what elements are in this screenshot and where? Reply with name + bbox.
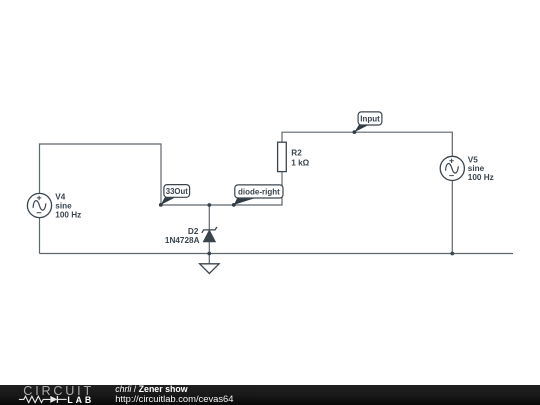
wire: 33Out node to R2 bottom (161, 172, 282, 205)
footer logo resistor zigzag (19, 396, 50, 402)
wire: rail to ground stub (208, 254, 210, 264)
junction dot at D2/bottom rail (207, 252, 211, 256)
wire: junction to D2 cathode (208, 205, 210, 230)
svg-text:diode-right: diode-right (238, 188, 280, 197)
junction dot at V5/bottom rail (450, 252, 454, 256)
junction dot at D2/top wire (207, 203, 211, 207)
footer bar (0, 385, 540, 405)
node diode-right (232, 185, 283, 207)
wire: D2 anode to rail (208, 242, 210, 254)
svg-text:Input: Input (360, 115, 380, 124)
wire: V4 top loop to 33Out node (40, 144, 162, 205)
svg-text:V4: V4 (55, 193, 65, 202)
voltage source V4 (27, 193, 51, 217)
node 33Out (159, 185, 190, 207)
footer logo diode (50, 396, 57, 403)
svg-text:1N4728A: 1N4728A (165, 236, 200, 245)
svg-text:33Out: 33Out (166, 187, 188, 196)
ground (200, 264, 220, 274)
svg-text:http://circuitlab.com/cevas64: http://circuitlab.com/cevas64 (115, 393, 233, 404)
svg-text:R2: R2 (291, 148, 302, 157)
wire: V4 bottom to rail (39, 218, 41, 254)
svg-text:100 Hz: 100 Hz (55, 210, 81, 219)
voltage source V5 (440, 156, 464, 180)
zener diode D2 (202, 227, 217, 242)
wire: bottom rail (40, 253, 514, 255)
resistor R2 (278, 142, 287, 171)
svg-text:100 Hz: 100 Hz (468, 173, 494, 182)
svg-text:D2: D2 (188, 227, 199, 236)
svg-text:LAB: LAB (67, 395, 94, 405)
svg-text:sine: sine (55, 201, 72, 210)
svg-text:V5: V5 (468, 155, 478, 164)
svg-text:sine: sine (468, 164, 485, 173)
wire: V5 bottom to rail (451, 181, 453, 254)
wire: R2 top to Input corner to V5 top (282, 132, 452, 156)
node Input (353, 112, 382, 134)
svg-text:1 kΩ: 1 kΩ (291, 158, 309, 167)
